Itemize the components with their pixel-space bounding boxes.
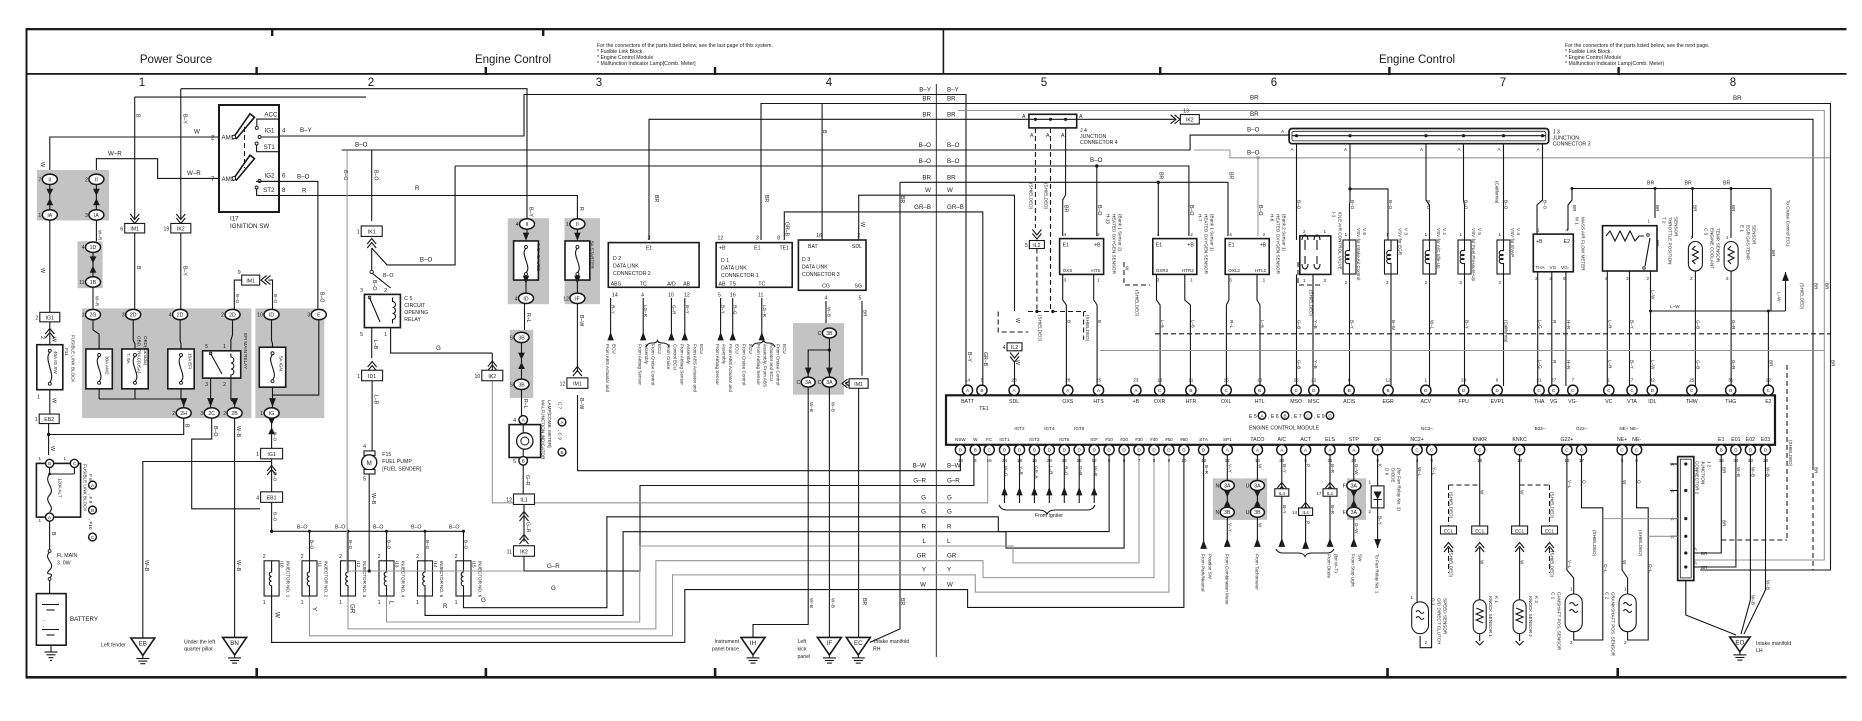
wire right chain down [95, 220, 97, 242]
svg-text:IA: IA [47, 213, 52, 219]
section boundary line [935, 84, 937, 657]
svg-text:1: 1 [37, 395, 40, 401]
svg-text:L: L [923, 538, 927, 545]
svg-text:II: II [576, 222, 579, 228]
svg-text:GR–B: GR–B [914, 204, 931, 211]
wire igniter IGT4 [1048, 455, 1050, 503]
svg-text:W: W [39, 268, 45, 273]
wire DLC3 BAT feed from BR bus1 [821, 104, 823, 241]
svg-text:+B: +B [1187, 243, 1194, 249]
wire R-L to 3B [524, 304, 526, 333]
wire gray G22 shield to J2 [1603, 518, 1678, 520]
svg-text:R–L: R–L [522, 399, 528, 409]
svg-text:IGF: IGF [1090, 437, 1098, 442]
svg-text:SENSOR: SENSOR [1752, 225, 1757, 245]
svg-text:IM1: IM1 [130, 227, 139, 233]
svg-text:B: B [1387, 388, 1390, 393]
svg-text:INJECTOR NO. 1: INJECTOR NO. 1 [286, 561, 291, 598]
svg-text:DIODE: DIODE [1391, 468, 1396, 483]
svg-text:Engine Control: Engine Control [475, 54, 551, 66]
svg-text:B–O: B–O [1188, 205, 1194, 215]
svg-text:ABS: ABS [611, 281, 622, 287]
svg-text:From Airbag Sensor: From Airbag Sensor [756, 344, 761, 385]
svg-text:BN: BN [230, 640, 239, 647]
svg-text:Y–L: Y–L [1432, 467, 1437, 476]
wire ECT down [1694, 271, 1696, 386]
wire O2#1 OXS down [1063, 274, 1067, 386]
svg-text:1: 1 [1624, 587, 1627, 592]
svg-text:J 2: J 2 [1707, 461, 1712, 468]
svg-text:1: 1 [82, 313, 85, 319]
svg-text:2: 2 [1345, 280, 1348, 285]
svg-text:I13: I13 [395, 561, 400, 568]
svg-text:* Malfunction Indicator Lamp(C: * Malfunction Indicator Lamp(Comb. Meter… [1565, 61, 1664, 67]
svg-text:G22–: G22– [1576, 426, 1588, 431]
svg-text:(SHIELDED): (SHIELDED) [1592, 530, 1597, 557]
svg-text:B: B [560, 450, 563, 455]
From Igniter wires [999, 455, 1098, 519]
wire IM1 to 2D [134, 233, 136, 310]
svg-text:(SHIELDED): (SHIELDED) [1449, 492, 1454, 519]
svg-text:IL4: IL4 [1302, 510, 1309, 515]
svg-text:BR: BR [1721, 520, 1726, 527]
wire IK1 to B-O bus2 [372, 166, 455, 265]
svg-text:N: N [1216, 510, 1220, 516]
svg-text:GR: GR [917, 553, 927, 560]
svg-text:L–W: L–W [1670, 304, 1680, 309]
svg-text:INJECTOR NO. 6: INJECTOR NO. 6 [478, 561, 483, 598]
svg-text:G: G [921, 509, 926, 516]
svg-text:23: 23 [1133, 378, 1139, 383]
svg-text:BR: BR [922, 111, 931, 118]
svg-text:4: 4 [826, 77, 833, 89]
svg-text:2: 2 [301, 554, 304, 560]
gray block EFI fuse group [82, 308, 251, 418]
svg-text:B–O: B–O [387, 540, 392, 550]
junction connector J2 [1670, 457, 1712, 581]
svg-text:STP: STP [1349, 437, 1360, 443]
svg-text:(SHIELDED): (SHIELDED) [1135, 290, 1140, 317]
connector IL1 on ELS wire [1323, 489, 1337, 497]
svg-text:TC: TC [640, 281, 647, 287]
svg-text:JUNCTION: JUNCTION [1701, 461, 1706, 484]
svg-text:C 7: C 7 [558, 402, 563, 410]
svg-text:(California): (California) [1495, 181, 1500, 204]
svg-text:12: 12 [1386, 378, 1392, 383]
svg-text:INJECTOR NO. 2: INJECTOR NO. 2 [324, 561, 329, 598]
svg-text:MSC: MSC [1308, 399, 1320, 405]
svg-text:2: 2 [172, 411, 175, 417]
svg-text:W: W [194, 129, 200, 136]
svg-text:W–L: W–L [1430, 320, 1435, 330]
svg-text:(SHIELDED): (SHIELDED) [1800, 283, 1805, 310]
svg-text:L–G: L–G [1538, 360, 1543, 369]
svg-text:Power Source: Power Source [140, 54, 212, 66]
fusible link 40A IG SW [37, 345, 63, 401]
svg-text:O: O [1637, 480, 1642, 484]
svg-text:3: 3 [1157, 278, 1160, 283]
node ECM pin #10 [1104, 445, 1114, 455]
svg-text:ST2: ST2 [263, 187, 275, 194]
svg-text:W–G: W–G [1004, 466, 1009, 477]
svg-text:THG: THG [1725, 399, 1736, 405]
svg-text:W: W [920, 581, 926, 588]
svg-text:W: W [274, 612, 281, 618]
svg-text:16: 16 [730, 292, 736, 298]
wire STA From Park/Neutral [1200, 455, 1212, 592]
svg-text:G–R: G–R [947, 477, 960, 484]
node ECM pin HTR [1186, 385, 1196, 395]
wire to fan relay no.1 [1374, 508, 1382, 594]
svg-text:KNKC: KNKC [1512, 437, 1527, 443]
svg-text:B: B [1258, 388, 1261, 393]
svg-text:RELAY: RELAY [404, 317, 421, 323]
svg-text:R: R [578, 207, 584, 211]
svg-text:E01: E01 [1731, 437, 1740, 443]
svg-text:W: W [1258, 523, 1263, 528]
svg-text:2: 2 [368, 77, 374, 89]
svg-text:I15: I15 [472, 561, 477, 568]
svg-text:B–O: B–O [919, 158, 932, 165]
svg-text:W: W [51, 337, 57, 342]
connector II gauge [520, 219, 535, 229]
svg-text:G–B: G–B [1696, 360, 1701, 369]
svg-text:IGNITION SW: IGNITION SW [230, 223, 269, 230]
svg-text:HEATED OXYGEN SENSOR: HEATED OXYGEN SENSOR [1276, 214, 1281, 275]
svg-text:, F 9: , F 9 [88, 494, 93, 504]
node ECM pin VG- [1568, 385, 1578, 395]
svg-text:A: A [1498, 147, 1502, 152]
svg-text:W–B: W–B [143, 560, 149, 572]
svg-text:GR–B: GR–B [784, 222, 790, 237]
svg-text:8: 8 [1153, 458, 1156, 463]
svg-text:D 3: D 3 [802, 257, 810, 263]
svg-text:A: A [1694, 547, 1698, 552]
svg-text:BR: BR [1771, 250, 1776, 257]
svg-text:B–O: B–O [1543, 200, 1548, 210]
svg-text:NE+: NE+ [1617, 437, 1627, 443]
svg-text:4: 4 [256, 495, 259, 501]
svg-text:C: C [818, 380, 822, 386]
svg-text:15A EFI: 15A EFI [188, 353, 193, 369]
svg-text:1: 1 [38, 456, 41, 461]
svg-text:R: R [302, 188, 307, 195]
connector C 3A a [801, 377, 815, 387]
connector 1D [86, 242, 101, 252]
wire G bus 2 injector6 [464, 455, 1110, 608]
svg-text:ST1: ST1 [264, 144, 276, 151]
solenoid V 2 VSV for A/C Idle-Up [1423, 228, 1447, 285]
ground EB [101, 462, 272, 664]
svg-text:ENGINE CONTROL MODULE: ENGINE CONTROL MODULE [1249, 426, 1320, 432]
injector no.3 [339, 531, 367, 606]
svg-text:4: 4 [363, 444, 366, 450]
svg-text:B–O: B–O [348, 540, 353, 550]
connector F 3A [1347, 481, 1361, 491]
svg-text:2C: 2C [208, 411, 215, 417]
svg-text:O: O [1582, 480, 1587, 484]
svg-text:A: A [1046, 133, 1050, 139]
svg-text:From ABS Actuator and: From ABS Actuator and [728, 344, 733, 392]
svg-text:CRANKSHAFT POS. SENSOR: CRANKSHAFT POS. SENSOR [1611, 592, 1616, 657]
svg-text:2: 2 [1190, 232, 1193, 237]
fuel pump F15 [362, 451, 422, 483]
svg-text:W–B: W–B [1750, 595, 1755, 605]
wire L bus injector4 [387, 455, 1140, 622]
svg-text:L–B: L–B [372, 340, 378, 350]
connector ID [264, 309, 279, 319]
svg-text:1: 1 [1460, 232, 1463, 237]
svg-text:2H: 2H [180, 411, 187, 417]
svg-text:B–W: B–W [578, 398, 584, 409]
svg-text:13: 13 [1183, 109, 1189, 115]
svg-text:L–W: L–W [1777, 292, 1782, 302]
wire B-O bus 1 [342, 135, 1289, 150]
svg-text:1B: 1B [90, 280, 97, 286]
svg-text:3A: 3A [1254, 484, 1261, 490]
svg-text:B: B [1729, 388, 1732, 393]
svg-text:3A: 3A [1351, 484, 1358, 490]
svg-text:+B: +B [1094, 243, 1101, 249]
svg-text:5: 5 [981, 378, 984, 383]
connector E [311, 309, 326, 319]
wire GR-B bus (DLC1 TE1 to ECM TE1) [784, 212, 983, 386]
node ECM pin NC2+ [1412, 445, 1422, 455]
svg-text:Left fender: Left fender [101, 643, 126, 649]
svg-text:ID: ID [523, 296, 528, 302]
wire W bus (DLC3 SDL to ECM) [859, 195, 1015, 311]
svg-text:B–O: B–O [310, 540, 315, 550]
svg-text:VG-: VG- [1561, 265, 1570, 270]
svg-text:G: G [551, 585, 556, 592]
EGR gas temp sensor [1724, 225, 1756, 281]
svg-text:BR: BR [1572, 205, 1577, 212]
svg-text:W–B: W–B [235, 426, 241, 438]
svg-text:B–O: B–O [212, 426, 218, 436]
svg-text:ECU: ECU [699, 344, 704, 354]
svg-text:IGT1: IGT1 [999, 437, 1010, 442]
svg-text:BR: BR [922, 174, 931, 181]
svg-text:B–Y: B–Y [721, 305, 726, 314]
node ECM pin NE+ [1617, 445, 1627, 455]
junction connector J3 [1281, 129, 1590, 148]
wire B-Y top feed [181, 89, 527, 219]
svg-text:2: 2 [1425, 280, 1428, 285]
svg-text:R: R [922, 524, 927, 531]
connector C 3A b [822, 377, 836, 387]
wire IK2 to 2D [180, 233, 182, 310]
svg-text:2: 2 [1424, 640, 1427, 645]
svg-text:25: 25 [1689, 378, 1695, 383]
node ECM pin A/C [1277, 445, 1287, 455]
svg-text:5A STARTER: 5A STARTER [590, 241, 595, 269]
svg-text:FPU: FPU [1458, 399, 1469, 405]
heated oxygen sensor H-13 (bank1 sensor2) [1060, 214, 1123, 283]
wire R from ST2 [279, 196, 577, 219]
svg-text:TACO: TACO [1250, 437, 1264, 443]
svg-text:B–O: B–O [373, 525, 383, 531]
top bus labels left of divider [914, 87, 931, 211]
svg-text:B: B [1097, 320, 1102, 323]
wire ACT [1301, 455, 1310, 512]
svg-text:1: 1 [301, 600, 304, 606]
injector no.1 [263, 554, 291, 606]
mass air flow meter M1 [1533, 217, 1585, 281]
node ECM pin THW [1687, 385, 1697, 395]
connector 2G [86, 309, 101, 319]
wire BR drop throttle [1654, 189, 1656, 219]
svg-text:VSV for Intake Air Control: VSV for Intake Air Control [1356, 228, 1361, 280]
node ECM pin ACIS [1344, 385, 1354, 395]
svg-text:OXS: OXS [1062, 399, 1073, 405]
svg-text:4: 4 [513, 418, 516, 424]
node ECM pin IGT [1044, 445, 1054, 455]
svg-text:W: W [1014, 318, 1020, 323]
svg-text:1: 1 [384, 332, 387, 338]
wire BR branch to O2 sensor3 E1 [1158, 182, 1228, 236]
long dashed shield line across right [1155, 333, 1830, 335]
svg-text:IM1: IM1 [573, 381, 582, 387]
wire R bus injector5 [425, 455, 1124, 615]
svg-text:V–Y: V–Y [1228, 464, 1233, 473]
gray block starter fuse [565, 218, 600, 304]
svg-text:Control ECU: Control ECU [673, 344, 678, 370]
svg-text:1: 1 [1499, 232, 1502, 237]
svg-text:G–B: G–B [1297, 360, 1302, 369]
svg-text:#20: #20 [1120, 437, 1128, 442]
svg-text:KNOCK SENSOR 2: KNOCK SENSOR 2 [1528, 596, 1533, 637]
svg-text:G–R: G–R [671, 305, 676, 315]
svg-text:I14: I14 [433, 561, 438, 568]
svg-text:Assembly, From ABS: Assembly, From ABS [763, 344, 768, 387]
connector U 3A [1250, 481, 1264, 491]
lower bus labels [913, 463, 927, 589]
relay C5 circuit opening [360, 288, 428, 338]
wire ELS [1326, 455, 1336, 492]
svg-text:B–W: B–W [913, 463, 927, 470]
svg-text:E: E [317, 313, 321, 319]
svg-text:14: 14 [958, 458, 964, 463]
svg-text:1: 1 [1410, 595, 1413, 600]
wire O2#2 down wires [1157, 274, 1161, 386]
svg-text:B–O: B–O [425, 540, 430, 550]
svg-text:W: W [39, 162, 45, 167]
svg-text:B–Y: B–Y [1282, 505, 1287, 514]
svg-text:K: K [1378, 464, 1383, 468]
svg-text:SG: SG [855, 284, 863, 290]
svg-text:From Combination Meter: From Combination Meter [1225, 554, 1230, 605]
wire relay5 to ID1 [368, 328, 378, 371]
svg-text:II: II [526, 222, 529, 228]
svg-text:W: W [1480, 560, 1485, 565]
svg-text:5: 5 [513, 459, 516, 465]
wire arrows between 3A 3B [1226, 492, 1228, 505]
svg-text:(for M–T): (for M–T) [1334, 554, 1339, 573]
svg-text:2: 2 [384, 288, 387, 294]
svg-text:5A IGN: 5A IGN [279, 356, 284, 371]
svg-text:G–R: G–R [1078, 466, 1083, 476]
fusible link block 120A ALT [36, 456, 87, 523]
svg-text:8: 8 [282, 187, 286, 194]
gray block gauge fuse [508, 218, 549, 304]
svg-text:2: 2 [1386, 280, 1389, 285]
svg-text:BR: BR [763, 195, 769, 202]
svg-text:3B: 3B [518, 382, 525, 388]
svg-text:4: 4 [1003, 345, 1006, 351]
svg-text:E1: E1 [754, 246, 760, 252]
node ECM pin E1 [1716, 445, 1726, 455]
svg-text:K 1: K 1 [1494, 596, 1499, 603]
svg-text:W–R: W–R [95, 296, 100, 307]
svg-text:2: 2 [1570, 640, 1573, 645]
svg-text:4: 4 [641, 292, 644, 298]
node ECM pin ACT [1301, 445, 1311, 455]
node ECM pin EVP1 [1492, 385, 1502, 395]
data link connector 3 [798, 233, 866, 301]
svg-text:5: 5 [859, 295, 862, 301]
svg-text:C: C [796, 380, 800, 386]
gray block 3B 3A airbag [793, 323, 844, 395]
svg-text:LAMP[COMB. METER]: LAMP[COMB. METER] [547, 400, 552, 447]
svg-text:11: 11 [507, 549, 512, 555]
svg-text:4: 4 [515, 296, 518, 302]
wire IF B-W to IM1 [576, 304, 578, 373]
wire shield dashed horizontal + taps [1028, 311, 1086, 313]
svg-text:I10: I10 [280, 561, 285, 568]
svg-text:EC1: EC1 [1515, 528, 1524, 533]
svg-text:U: U [1246, 484, 1250, 490]
svg-text:3: 3 [122, 313, 125, 319]
svg-text:#50: #50 [1165, 437, 1173, 442]
svg-text:W: W [1520, 490, 1525, 495]
svg-text:IG1: IG1 [265, 128, 276, 135]
svg-text:G–R: G–R [547, 563, 560, 570]
svg-text:BR: BR [1228, 172, 1234, 179]
svg-text:VC: VC [1605, 399, 1612, 405]
svg-text:HTL2: HTL2 [1255, 268, 1267, 273]
wire 3B to MIL [521, 390, 523, 416]
ground IF [798, 637, 842, 663]
wire BR bus 1 (DLC1 E1) [761, 104, 1831, 571]
svg-text:B–O: B–O [297, 174, 310, 181]
svg-text:(Bank 1 Sensor 1): (Bank 1 Sensor 1) [1210, 214, 1215, 251]
svg-text:W–R: W–R [1093, 466, 1098, 477]
svg-text:ECU: ECU [657, 344, 662, 354]
svg-text:E1: E1 [1228, 243, 1234, 249]
node ECM pin IGF [1089, 445, 1099, 455]
svg-text:5: 5 [1025, 243, 1028, 249]
wire relay1 to IK2 [391, 328, 497, 371]
node ECM pin #20 [1119, 445, 1129, 455]
svg-text:1: 1 [1323, 229, 1326, 234]
wire DLC3 CG down [825, 301, 827, 328]
svg-text:2: 2 [35, 315, 38, 321]
injector no.6 [455, 531, 483, 606]
svg-text:EB1: EB1 [267, 495, 277, 501]
svg-text:VSV for EVAP: VSV for EVAP [1510, 228, 1515, 257]
node ECM pin NSW [955, 445, 965, 455]
svg-text:24: 24 [1461, 378, 1467, 383]
svg-text:(SHIELDED): (SHIELDED) [1085, 315, 1090, 342]
svg-text:B: B [1348, 388, 1351, 393]
svg-text:GR: GR [947, 553, 957, 560]
node ECM pin #40 [1149, 445, 1159, 455]
svg-text:4: 4 [1157, 232, 1160, 237]
injector no.4 [378, 531, 406, 606]
node ECM pin THA [1534, 385, 1544, 395]
svg-text:8: 8 [777, 236, 780, 242]
svg-text:1: 1 [1425, 378, 1428, 383]
